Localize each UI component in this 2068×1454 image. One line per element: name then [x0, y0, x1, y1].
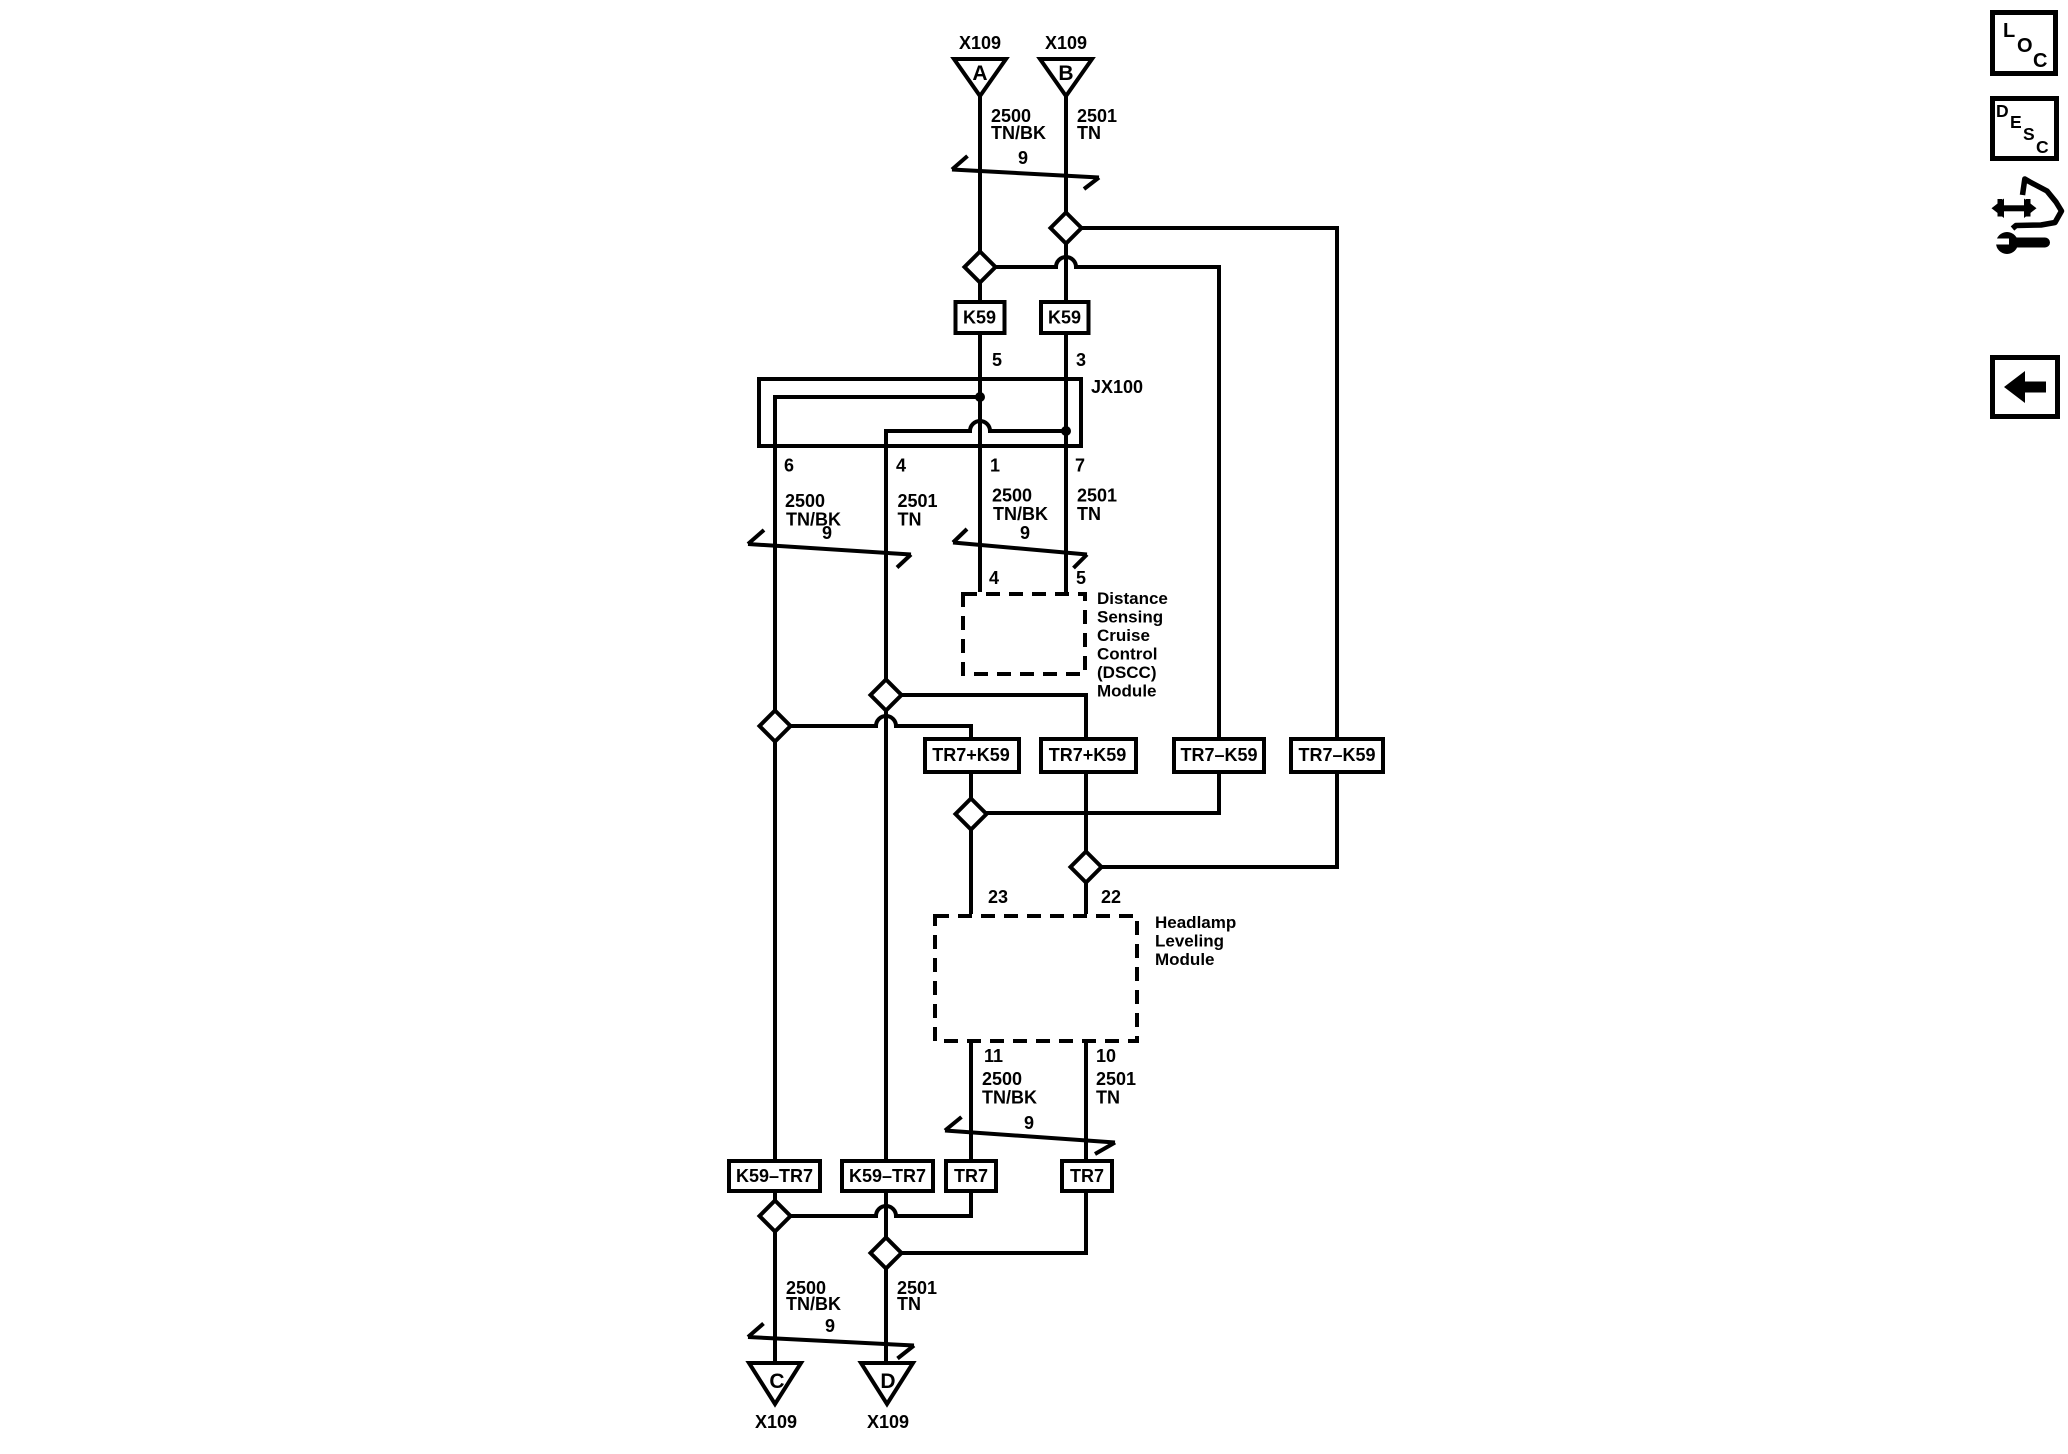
svg-text:JX100: JX100 — [1091, 377, 1143, 397]
svg-text:X109: X109 — [755, 1412, 797, 1432]
svg-text:4: 4 — [896, 456, 906, 476]
svg-text:6: 6 — [784, 456, 794, 476]
svg-text:9: 9 — [1020, 523, 1030, 543]
svg-text:C: C — [769, 1370, 784, 1393]
svg-text:D: D — [880, 1370, 895, 1393]
svg-text:K59: K59 — [963, 308, 996, 328]
svg-text:K59–TR7: K59–TR7 — [736, 1166, 813, 1186]
svg-text:TR7–K59: TR7–K59 — [1180, 745, 1257, 765]
svg-text:(DSCC): (DSCC) — [1097, 663, 1157, 682]
svg-text:Leveling: Leveling — [1155, 932, 1224, 951]
svg-text:22: 22 — [1101, 887, 1121, 907]
svg-text:TN: TN — [1096, 1088, 1120, 1108]
svg-text:Module: Module — [1155, 950, 1215, 969]
svg-text:D: D — [1996, 101, 2009, 121]
svg-text:X109: X109 — [1045, 33, 1087, 53]
svg-text:9: 9 — [1018, 148, 1028, 168]
svg-text:TN/BK: TN/BK — [786, 1294, 841, 1314]
svg-text:5: 5 — [1076, 568, 1086, 588]
svg-text:A: A — [972, 62, 987, 85]
svg-text:2500: 2500 — [785, 491, 825, 511]
svg-text:TN/BK: TN/BK — [993, 504, 1048, 524]
svg-text:TR7: TR7 — [954, 1166, 988, 1186]
svg-text:TR7+K59: TR7+K59 — [932, 745, 1010, 765]
svg-text:Control: Control — [1097, 645, 1157, 664]
svg-text:11: 11 — [984, 1046, 1003, 1066]
svg-text:2501: 2501 — [1077, 486, 1117, 506]
svg-text:TN: TN — [1077, 123, 1101, 143]
svg-text:9: 9 — [825, 1316, 835, 1336]
svg-text:TN: TN — [898, 510, 922, 530]
svg-text:TR7: TR7 — [1070, 1166, 1104, 1186]
svg-text:X109: X109 — [959, 33, 1001, 53]
svg-text:9: 9 — [822, 523, 832, 543]
svg-text:3: 3 — [1076, 350, 1086, 370]
svg-text:TN/BK: TN/BK — [786, 510, 841, 530]
svg-text:TR7+K59: TR7+K59 — [1049, 745, 1127, 765]
svg-text:23: 23 — [988, 887, 1008, 907]
svg-text:TR7–K59: TR7–K59 — [1298, 745, 1375, 765]
svg-text:C: C — [2033, 50, 2047, 72]
svg-text:2501: 2501 — [898, 491, 938, 511]
svg-text:TN/BK: TN/BK — [991, 123, 1046, 143]
svg-text:Distance: Distance — [1097, 589, 1168, 608]
svg-text:Cruise: Cruise — [1097, 626, 1150, 645]
svg-text:1: 1 — [990, 456, 1000, 476]
svg-text:10: 10 — [1096, 1046, 1116, 1066]
svg-text:TN: TN — [897, 1294, 921, 1314]
svg-text:2500: 2500 — [992, 486, 1032, 506]
svg-text:C: C — [2036, 137, 2049, 157]
svg-text:K59–TR7: K59–TR7 — [849, 1166, 926, 1186]
svg-text:B: B — [1058, 62, 1073, 85]
svg-text:Headlamp: Headlamp — [1155, 913, 1236, 932]
svg-text:4: 4 — [989, 568, 999, 588]
svg-text:K59: K59 — [1048, 308, 1081, 328]
svg-text:TN/BK: TN/BK — [982, 1088, 1037, 1108]
svg-text:Sensing: Sensing — [1097, 608, 1163, 627]
svg-text:E: E — [2010, 112, 2022, 132]
svg-text:9: 9 — [1024, 1113, 1034, 1133]
svg-text:5: 5 — [992, 350, 1002, 370]
svg-text:O: O — [2017, 35, 2033, 57]
svg-text:X109: X109 — [867, 1412, 909, 1432]
svg-text:L: L — [2003, 20, 2015, 42]
svg-text:TN: TN — [1077, 504, 1101, 524]
svg-text:Module: Module — [1097, 682, 1157, 701]
svg-text:2500: 2500 — [982, 1069, 1022, 1089]
svg-text:2501: 2501 — [1096, 1069, 1136, 1089]
svg-text:S: S — [2023, 124, 2035, 144]
svg-text:7: 7 — [1075, 456, 1085, 476]
